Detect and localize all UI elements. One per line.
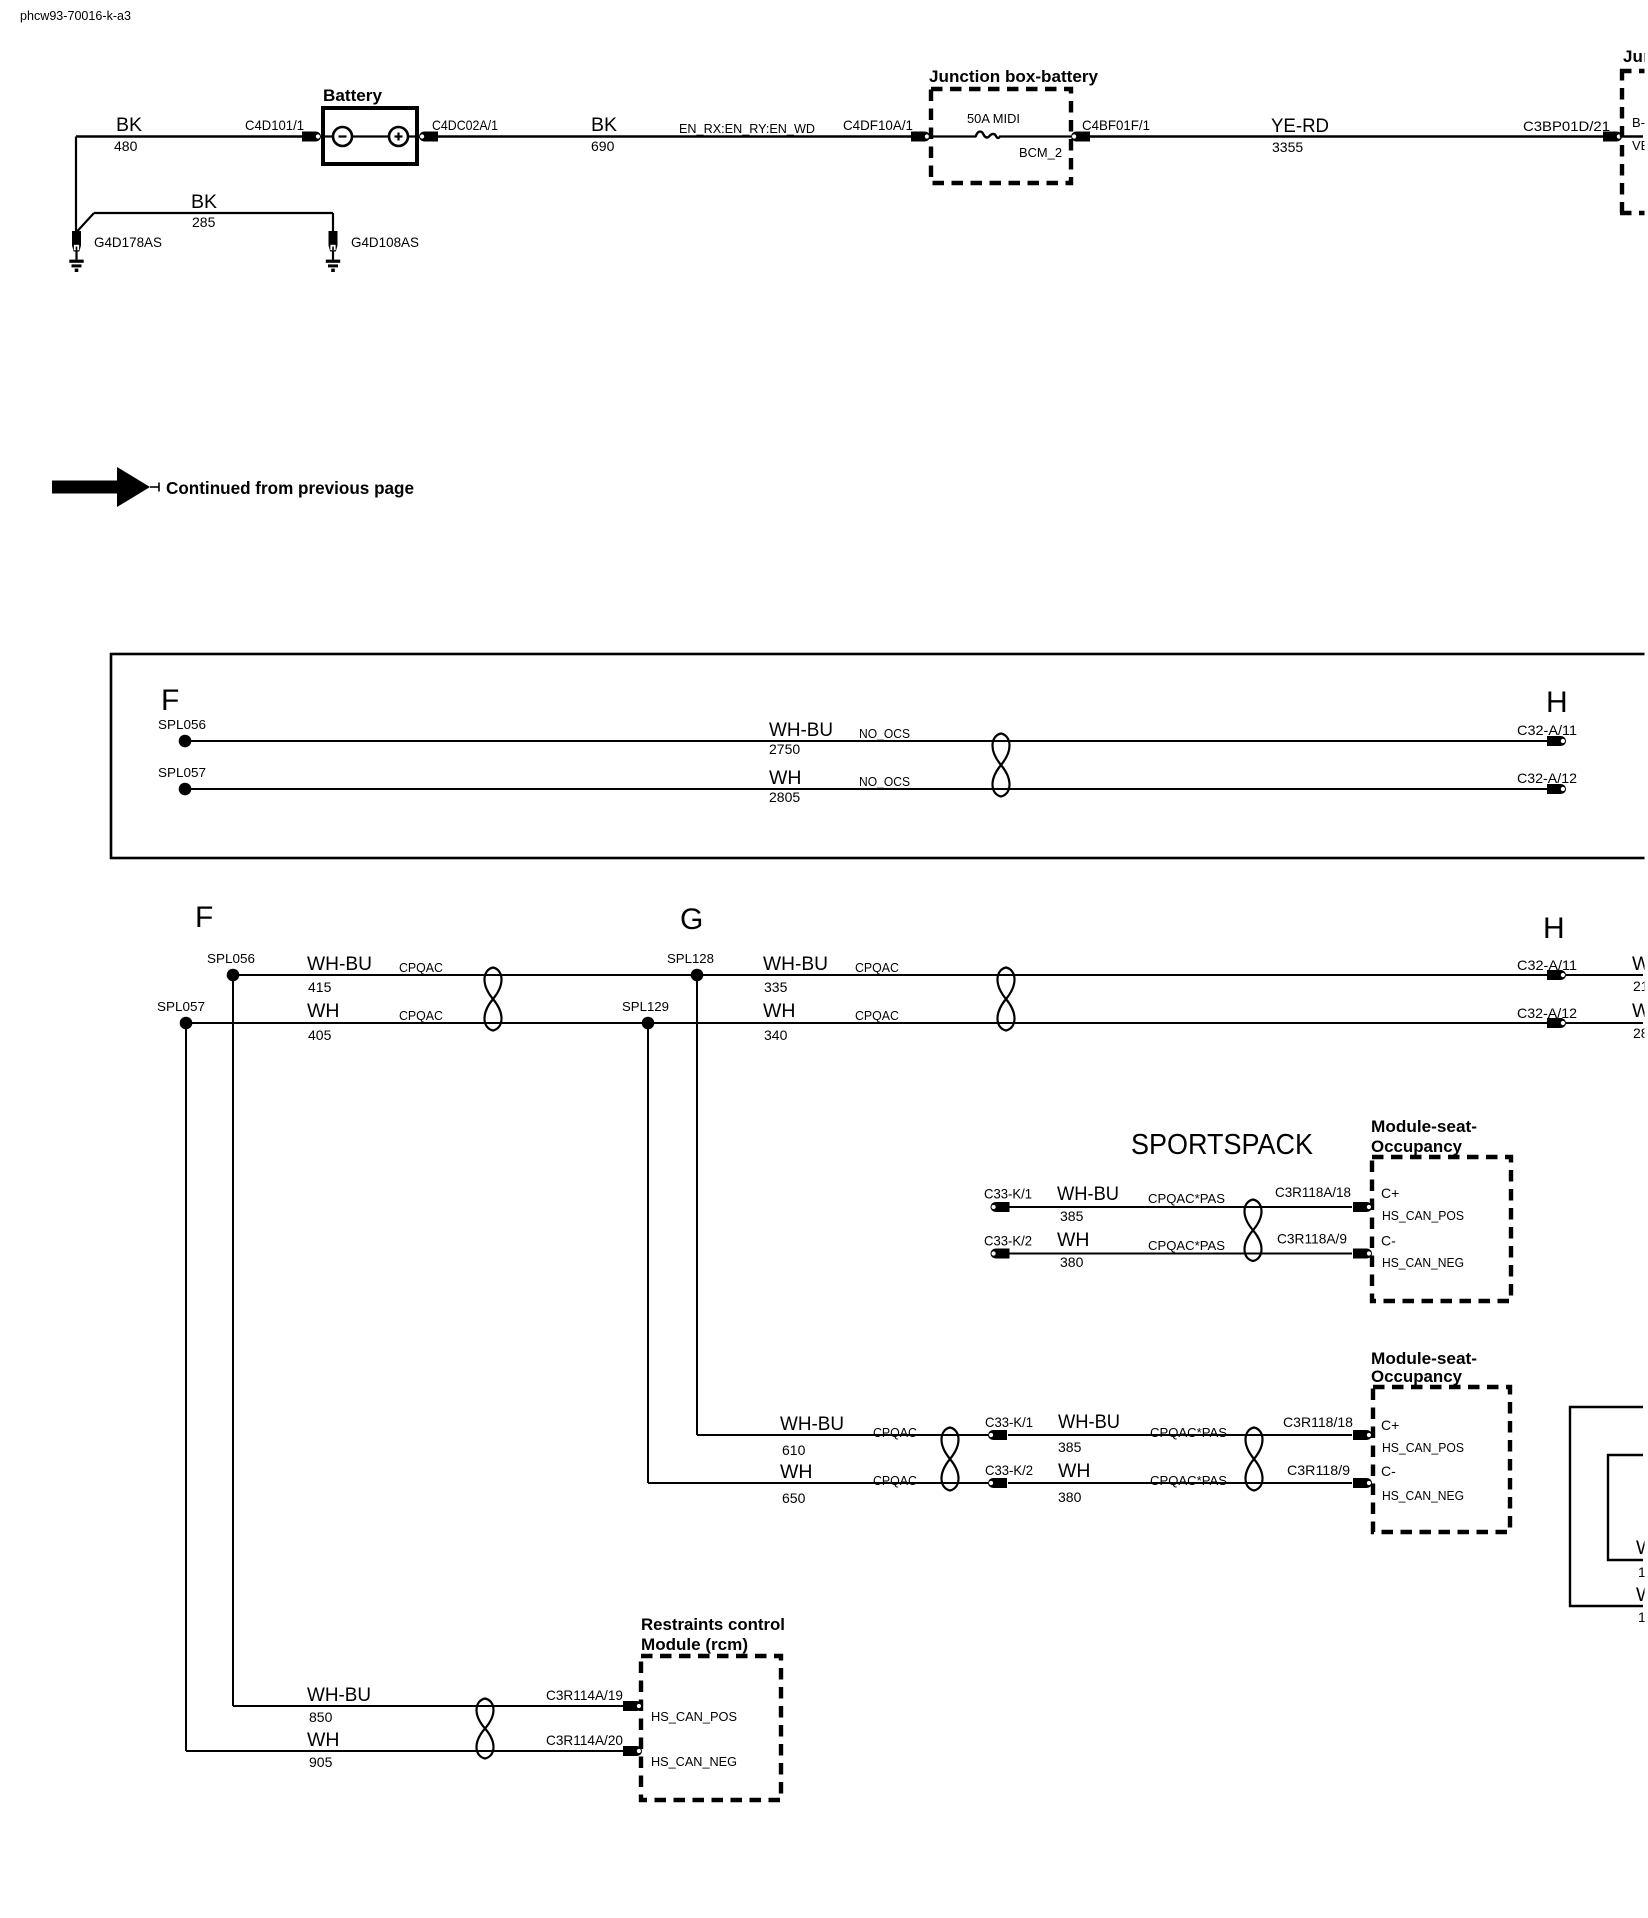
svg-text:Junction box: Junction box xyxy=(1623,47,1648,66)
svg-text:2750: 2750 xyxy=(769,741,800,757)
wire WH (to next page) xyxy=(1566,1000,1648,1041)
svg-text:CPQAC*PAS: CPQAC*PAS xyxy=(1150,1425,1227,1440)
twisted pair xyxy=(1246,1428,1263,1491)
svg-text:HS_CAN_POS: HS_CAN_POS xyxy=(1382,1440,1464,1455)
junction box-battery xyxy=(929,67,1099,183)
svg-text:CPQAC: CPQAC xyxy=(855,960,899,975)
svg-text:385: 385 xyxy=(1060,1208,1084,1224)
svg-text:C33-K/2: C33-K/2 xyxy=(985,1462,1033,1478)
svg-text:C3R114A/20: C3R114A/20 xyxy=(546,1732,623,1748)
module-seat-occupancy (lower) xyxy=(1371,1349,1510,1532)
svg-text:BCM_2: BCM_2 xyxy=(1019,145,1062,160)
svg-text:610: 610 xyxy=(782,1442,806,1458)
wire WH 380 CPQAC*PAS xyxy=(1008,1460,1352,1505)
twisted pair xyxy=(993,734,1010,797)
svg-text:Battery: Battery xyxy=(323,86,383,105)
svg-text:SPORTSPACK: SPORTSPACK xyxy=(1131,1129,1314,1161)
svg-text:WH-BU: WH-BU xyxy=(307,1684,371,1706)
svg-text:SPL128: SPL128 xyxy=(667,951,714,966)
svg-text:F: F xyxy=(195,901,213,934)
svg-text:CPQAC: CPQAC xyxy=(399,960,443,975)
svg-text:50A MIDI: 50A MIDI xyxy=(967,111,1020,126)
svg-text:BK: BK xyxy=(591,114,617,136)
svg-text:NO_OCS: NO_OCS xyxy=(859,726,910,741)
svg-text:Occupancy: Occupancy xyxy=(1371,1367,1463,1386)
connector C3R114A/20 xyxy=(546,1732,642,1756)
svg-text:C32-A/12: C32-A/12 xyxy=(1517,1005,1577,1021)
twisted pair xyxy=(485,968,502,1031)
connector C33-K/1 xyxy=(984,1186,1032,1213)
svg-text:G: G xyxy=(680,903,703,936)
continued-from-previous-page arrow xyxy=(52,467,414,507)
wire from SPL129 down xyxy=(647,1023,649,1483)
svg-text:WH-BU: WH-BU xyxy=(1057,1183,1119,1205)
wire WH-BU 610 CPQAC xyxy=(697,1413,988,1458)
svg-text:H: H xyxy=(1543,912,1565,945)
node F xyxy=(195,901,213,934)
ground G4D178AS xyxy=(69,231,162,272)
svg-text:Module-seat-: Module-seat- xyxy=(1371,1117,1477,1136)
svg-text:C-: C- xyxy=(1381,1233,1396,1249)
svg-text:SPL056: SPL056 xyxy=(207,951,255,966)
svg-text:Module (rcm): Module (rcm) xyxy=(641,1635,748,1654)
svg-text:WH: WH xyxy=(1057,1229,1090,1251)
node G xyxy=(680,903,703,936)
twisted pair xyxy=(942,1428,959,1491)
svg-text:HS_CAN_NEG: HS_CAN_NEG xyxy=(1382,1488,1464,1503)
svg-text:405: 405 xyxy=(308,1027,332,1043)
connector C33-K/2 xyxy=(985,1462,1033,1488)
net EN_RX:EN_RY:EN_WD xyxy=(679,121,815,136)
fuse 50A MIDI xyxy=(930,111,1071,138)
svg-text:CPQAC: CPQAC xyxy=(873,1473,917,1488)
ground G4D108AS xyxy=(326,231,419,272)
wire WH-BU (to next page) xyxy=(1566,953,1648,994)
svg-text:C3R118/18: C3R118/18 xyxy=(1283,1414,1353,1430)
svg-text:CPQAC: CPQAC xyxy=(855,1008,899,1023)
svg-text:WH-BU: WH-BU xyxy=(769,719,833,741)
wire WH-BU 335 CPQAC xyxy=(697,953,1548,995)
svg-text:905: 905 xyxy=(309,1754,333,1770)
svg-text:HS_CAN_POS: HS_CAN_POS xyxy=(1382,1208,1464,1223)
svg-text:CPQAC*PAS: CPQAC*PAS xyxy=(1148,1191,1225,1206)
svg-text:C32-A/11: C32-A/11 xyxy=(1517,722,1577,738)
wire from SPL056 down xyxy=(232,975,234,1706)
connector C4DC02A/1 xyxy=(419,117,498,142)
frame box F-H xyxy=(111,654,1648,858)
battery xyxy=(321,86,419,164)
wire from SPL128 down xyxy=(696,975,698,1435)
wire WH-BU 2750 NO_OCS xyxy=(185,719,1548,757)
twisted pair xyxy=(1245,1200,1262,1262)
connector C3R118/9 xyxy=(1287,1462,1372,1488)
module-seat-occupancy (sportspack) xyxy=(1371,1117,1511,1301)
svg-text:WH: WH xyxy=(307,1000,340,1022)
svg-text:NO_OCS: NO_OCS xyxy=(859,774,910,789)
connector C3BP01D/21 xyxy=(1523,118,1622,142)
svg-text:BK: BK xyxy=(191,191,217,213)
svg-text:WH-BU: WH-BU xyxy=(307,953,372,975)
wire BK 480 xyxy=(76,114,303,231)
svg-text:3355: 3355 xyxy=(1272,139,1303,155)
wire WH-BU 850 xyxy=(233,1684,623,1725)
splice SPL057 xyxy=(158,765,206,795)
svg-text:WH: WH xyxy=(763,1000,796,1022)
svg-text:C33-K/2: C33-K/2 xyxy=(984,1233,1032,1249)
wire WH 2805 NO_OCS xyxy=(185,767,1548,805)
svg-text:Continued from previous page: Continued from previous page xyxy=(166,478,414,498)
wire WH-BU 415 CPQAC xyxy=(233,953,697,995)
svg-text:HS_CAN_NEG: HS_CAN_NEG xyxy=(1382,1255,1464,1270)
splice SPL057 xyxy=(157,999,205,1029)
wire WH 905 xyxy=(186,1729,623,1770)
svg-text:C32-A/12: C32-A/12 xyxy=(1517,770,1577,786)
svg-text:Restraints control: Restraints control xyxy=(641,1615,785,1634)
svg-text:C33-K/1: C33-K/1 xyxy=(985,1414,1033,1430)
wire from SPL057 down xyxy=(185,1023,187,1751)
svg-text:CPQAC: CPQAC xyxy=(399,1008,443,1023)
wire YE-RD 3355 xyxy=(1090,115,1603,155)
svg-text:WH: WH xyxy=(769,767,802,789)
svg-text:850: 850 xyxy=(309,1709,333,1725)
svg-text:C+: C+ xyxy=(1381,1417,1399,1433)
svg-text:EN_RX:EN_RY:EN_WD: EN_RX:EN_RY:EN_WD xyxy=(679,121,815,136)
svg-text:phcw93-70016-k-a3: phcw93-70016-k-a3 xyxy=(20,8,131,23)
connector C32-A/11 xyxy=(1517,957,1577,980)
svg-text:CPQAC: CPQAC xyxy=(873,1425,917,1440)
svg-text:G4D108AS: G4D108AS xyxy=(351,234,419,250)
svg-text:SPL057: SPL057 xyxy=(158,765,206,780)
wire WH 380 CPQAC*PAS xyxy=(1009,1229,1352,1270)
svg-text:415: 415 xyxy=(308,979,332,995)
svg-text:BK: BK xyxy=(116,114,142,136)
connector C32-A/12 xyxy=(1517,770,1577,794)
svg-text:480: 480 xyxy=(114,138,138,154)
SPORTSPACK heading xyxy=(1131,1129,1314,1161)
svg-text:C3R118/9: C3R118/9 xyxy=(1287,1462,1350,1478)
wire WH-BU 385 CPQAC*PAS xyxy=(1008,1411,1352,1455)
wire WH 340 CPQAC xyxy=(648,1000,1548,1043)
svg-text:C3BP01D/21: C3BP01D/21 xyxy=(1523,118,1610,134)
svg-text:YE-RD: YE-RD xyxy=(1271,115,1329,137)
wire WH 405 CPQAC xyxy=(186,1000,648,1043)
svg-text:H: H xyxy=(1546,686,1568,719)
svg-text:335: 335 xyxy=(764,979,788,995)
connector C3R118A/18 xyxy=(1275,1184,1372,1212)
restraints control module (rcm) xyxy=(641,1615,785,1800)
connector C33-K/1 xyxy=(985,1414,1033,1440)
svg-text:C3R114A/19: C3R114A/19 xyxy=(546,1687,623,1703)
svg-text:C3R118A/18: C3R118A/18 xyxy=(1275,1184,1351,1200)
wire route (inner, to next page) xyxy=(1608,1455,1648,1580)
connector C4BF01F/1 xyxy=(1071,117,1150,142)
svg-text:F: F xyxy=(161,684,179,717)
svg-text:WH-BU: WH-BU xyxy=(1058,1411,1120,1433)
node F xyxy=(161,684,179,717)
connector C32-A/12 xyxy=(1517,1005,1577,1028)
svg-text:C3R118A/9: C3R118A/9 xyxy=(1277,1231,1347,1247)
wire WH 650 CPQAC xyxy=(648,1461,988,1506)
svg-text:690: 690 xyxy=(591,138,615,154)
svg-text:285: 285 xyxy=(192,214,216,230)
connector C3R114A/19 xyxy=(546,1687,642,1711)
svg-text:Module-seat-: Module-seat- xyxy=(1371,1349,1477,1368)
splice SPL129 xyxy=(622,999,669,1029)
svg-text:C4DF10A/1: C4DF10A/1 xyxy=(843,117,913,133)
svg-text:385: 385 xyxy=(1058,1439,1082,1455)
svg-text:C4BF01F/1: C4BF01F/1 xyxy=(1082,117,1150,133)
node H xyxy=(1546,686,1568,719)
svg-text:C33-K/1: C33-K/1 xyxy=(984,1186,1032,1202)
connector C32-A/11 xyxy=(1517,722,1577,746)
svg-text:650: 650 xyxy=(782,1490,806,1506)
svg-text:C4D101/1: C4D101/1 xyxy=(245,117,304,133)
svg-text:C-: C- xyxy=(1381,1463,1396,1479)
svg-text:G4D178AS: G4D178AS xyxy=(94,234,162,250)
svg-text:C32-A/11: C32-A/11 xyxy=(1517,957,1577,973)
svg-text:380: 380 xyxy=(1058,1489,1082,1505)
svg-text:HS_CAN_POS: HS_CAN_POS xyxy=(651,1709,737,1724)
svg-text:WH: WH xyxy=(307,1729,340,1751)
svg-text:C+: C+ xyxy=(1381,1185,1399,1201)
wire route (outer, to next page) xyxy=(1570,1407,1648,1625)
connector C33-K/2 xyxy=(984,1233,1032,1259)
svg-text:380: 380 xyxy=(1060,1254,1084,1270)
svg-text:SPL129: SPL129 xyxy=(622,999,669,1014)
twisted pair xyxy=(998,968,1015,1031)
splice SPL056 xyxy=(158,717,206,747)
svg-text:SPL056: SPL056 xyxy=(158,717,206,732)
drawing code label xyxy=(20,8,131,23)
splice SPL128 xyxy=(667,951,714,981)
twisted pair xyxy=(477,1699,494,1759)
svg-text:C4DC02A/1: C4DC02A/1 xyxy=(432,117,498,133)
node H xyxy=(1543,912,1565,945)
svg-text:WH: WH xyxy=(1058,1460,1091,1482)
connector C3R118/18 xyxy=(1283,1414,1372,1440)
connector C4DF10A/1 xyxy=(843,117,930,142)
svg-text:WH-BU: WH-BU xyxy=(763,953,828,975)
svg-text:CPQAC*PAS: CPQAC*PAS xyxy=(1148,1238,1225,1253)
svg-text:WH: WH xyxy=(780,1461,813,1483)
wire BK 690 xyxy=(438,114,912,154)
svg-text:Occupancy: Occupancy xyxy=(1371,1137,1463,1156)
wire WH-BU 385 CPQAC*PAS xyxy=(1009,1183,1352,1224)
connector C3R118A/9 xyxy=(1277,1231,1372,1259)
svg-text:SPL057: SPL057 xyxy=(157,999,205,1014)
splice SPL056 xyxy=(207,951,255,981)
wire BK 285 xyxy=(77,191,333,232)
junction box (right, partial) xyxy=(1620,47,1648,215)
svg-text:340: 340 xyxy=(764,1027,788,1043)
svg-text:WH-BU: WH-BU xyxy=(780,1413,844,1435)
svg-text:HS_CAN_NEG: HS_CAN_NEG xyxy=(651,1754,737,1769)
connector C4D101/1 xyxy=(245,117,321,142)
svg-text:2805: 2805 xyxy=(769,789,800,805)
svg-text:CPQAC*PAS: CPQAC*PAS xyxy=(1150,1473,1227,1488)
svg-text:Junction box-battery: Junction box-battery xyxy=(929,67,1099,86)
